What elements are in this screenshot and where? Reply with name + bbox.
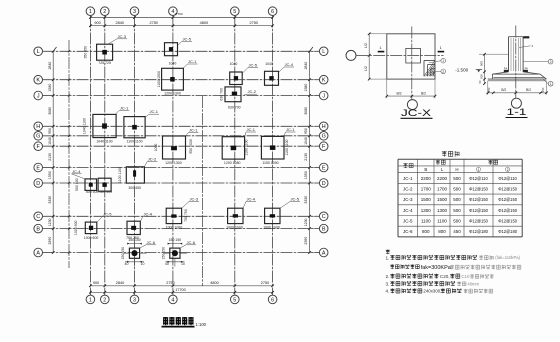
svg-text:B/2: B/2 (396, 91, 401, 95)
svg-text:17700: 17700 (175, 288, 185, 292)
svg-text:4800: 4800 (210, 281, 218, 285)
svg-text:2750: 2750 (261, 281, 269, 285)
svg-text:40: 40 (125, 262, 129, 266)
svg-text:2130: 2130 (304, 153, 308, 161)
svg-text:1100: 1100 (437, 219, 447, 224)
svg-text:2: 2 (442, 70, 444, 74)
svg-text:900: 900 (94, 21, 100, 25)
svg-text:JC-5: JC-5 (403, 219, 413, 224)
svg-text:J: J (322, 93, 325, 99)
svg-text:C: C (36, 214, 40, 220)
svg-text:17700: 17700 (174, 12, 183, 16)
svg-text:800: 800 (438, 229, 446, 234)
svg-text:2130: 2130 (48, 153, 52, 161)
svg-text:Φ12@150: Φ12@150 (469, 186, 489, 191)
svg-text:950: 950 (304, 128, 308, 134)
svg-text:JC-2: JC-2 (403, 186, 413, 191)
svg-text:1500: 1500 (421, 197, 432, 202)
svg-text:1: 1 (89, 297, 92, 303)
svg-text:L/2: L/2 (364, 66, 368, 71)
svg-text:JC-3: JC-3 (118, 34, 127, 39)
svg-text:1580: 1580 (48, 84, 52, 92)
svg-text:500: 500 (453, 219, 461, 224)
svg-text:B: B (424, 167, 427, 172)
svg-text:K: K (36, 78, 40, 84)
svg-text:Φ12@180: Φ12@180 (498, 229, 518, 234)
svg-text:1.: 1. (386, 255, 390, 260)
svg-text:450: 450 (453, 229, 461, 234)
svg-text:H: H (322, 124, 326, 130)
svg-text:3: 3 (133, 297, 136, 303)
svg-text:JC-4: JC-4 (72, 169, 81, 174)
svg-text:40mm: 40mm (467, 281, 479, 286)
svg-text:JC-6: JC-6 (147, 240, 156, 245)
svg-text:1580: 1580 (304, 84, 308, 92)
svg-text:JC-3: JC-3 (190, 197, 199, 202)
svg-text:950 1030: 950 1030 (189, 139, 193, 154)
svg-text:JC-2: JC-2 (148, 157, 157, 162)
svg-text:1300: 1300 (437, 208, 448, 213)
svg-text:JC-4: JC-4 (144, 211, 153, 216)
svg-text:JC-6: JC-6 (403, 229, 413, 234)
svg-text:4800: 4800 (200, 21, 208, 25)
svg-text:C: C (322, 214, 326, 220)
svg-text:5: 5 (233, 9, 236, 15)
svg-text:2: 2 (103, 9, 106, 15)
svg-text:E: E (322, 165, 326, 171)
svg-text:750 750: 750 750 (184, 209, 188, 222)
svg-text:150: 150 (541, 87, 545, 92)
svg-text:B: B (36, 227, 40, 233)
svg-text:1550: 1550 (48, 171, 52, 179)
svg-text:2750: 2750 (166, 281, 174, 285)
svg-text:1040: 1040 (230, 62, 238, 66)
svg-text:JC-3: JC-3 (403, 197, 413, 202)
svg-text:1: 1 (550, 82, 552, 86)
svg-text:2: 2 (103, 297, 106, 303)
svg-text:2840: 2840 (304, 62, 308, 70)
svg-text:1000 1000: 1000 1000 (263, 225, 280, 229)
svg-text:JC-1: JC-1 (189, 128, 198, 133)
svg-text:725 725: 725 725 (98, 61, 111, 65)
svg-text:JC-4: JC-4 (403, 208, 413, 213)
svg-text:JC-5: JC-5 (103, 211, 112, 216)
svg-text:1500: 1500 (437, 197, 448, 202)
svg-text:1:100: 1:100 (196, 322, 207, 327)
svg-text:1300: 1300 (421, 208, 432, 213)
svg-text:1100: 1100 (421, 219, 431, 224)
svg-text:1040: 1040 (169, 62, 177, 66)
svg-text:JC-X: JC-X (401, 108, 431, 118)
svg-text:E: E (36, 165, 40, 171)
svg-text:500: 500 (453, 186, 461, 191)
svg-text:240x300,: 240x300, (423, 289, 441, 294)
svg-text:1: 1 (89, 9, 92, 15)
svg-text:JC-1: JC-1 (150, 109, 159, 114)
svg-text:1700: 1700 (421, 186, 432, 191)
svg-text:G: G (36, 134, 40, 140)
svg-text:L: L (37, 49, 40, 55)
svg-text:JC-1: JC-1 (403, 176, 413, 181)
svg-text:1000 1000: 1000 1000 (226, 225, 243, 229)
svg-text:500: 500 (453, 176, 461, 181)
svg-text:150 150: 150 150 (169, 238, 182, 242)
svg-text:2840: 2840 (115, 21, 123, 25)
svg-text:B/2: B/2 (501, 88, 506, 92)
svg-text:Φ12@150: Φ12@150 (469, 219, 489, 224)
svg-text:G: G (322, 134, 326, 140)
svg-text:40: 40 (165, 262, 169, 266)
svg-text:Φ12@150: Φ12@150 (469, 197, 489, 202)
svg-text:4.: 4. (386, 289, 390, 294)
svg-text:JC-4: JC-4 (285, 62, 294, 67)
svg-text:300 450: 300 450 (128, 186, 141, 190)
svg-text:1000: 1000 (154, 144, 158, 152)
svg-text:500: 500 (453, 197, 461, 202)
svg-text:950: 950 (48, 128, 52, 134)
svg-text:JC-1: JC-1 (188, 59, 197, 64)
svg-text:1100 1100: 1100 1100 (285, 139, 289, 155)
svg-text:Φ12@150: Φ12@150 (469, 208, 489, 213)
svg-text:B: B (322, 227, 326, 233)
svg-text:J: J (37, 93, 40, 99)
svg-text:4: 4 (171, 297, 174, 303)
svg-text:1a: 1a (504, 66, 508, 70)
svg-text:JC-4: JC-4 (247, 197, 256, 202)
svg-text:JC-5: JC-5 (291, 197, 300, 202)
svg-text:900: 900 (93, 281, 99, 285)
svg-text:1100 1100: 1100 1100 (244, 139, 248, 155)
svg-text:2: 2 (550, 60, 552, 64)
svg-text:Φ12@150: Φ12@150 (498, 219, 518, 224)
svg-text:A: A (36, 250, 40, 256)
svg-text:1700: 1700 (437, 186, 448, 191)
svg-text:Φ12@150: Φ12@150 (498, 208, 518, 213)
svg-text:1: 1 (380, 46, 382, 50)
svg-text:3330: 3330 (48, 196, 52, 204)
svg-text:1200 1300: 1200 1300 (165, 161, 182, 165)
svg-text:1040: 1040 (304, 137, 308, 145)
svg-text:1550: 1550 (304, 171, 308, 179)
svg-text:2.: 2. (386, 274, 390, 279)
svg-text:1150 1090: 1150 1090 (262, 161, 278, 165)
svg-text:JC-5: JC-5 (249, 63, 258, 68)
svg-text:fak=300KPa: fak=300KPa (421, 265, 452, 271)
svg-text:1200 1300: 1200 1300 (164, 91, 181, 95)
svg-text:1040 1100: 1040 1100 (96, 140, 112, 144)
svg-text:1-1: 1-1 (507, 107, 527, 117)
svg-text:2750: 2750 (249, 21, 257, 25)
svg-text:500: 500 (479, 61, 483, 66)
svg-text:D: D (36, 181, 40, 187)
svg-text:3080: 3080 (48, 107, 52, 115)
svg-text:2200: 2200 (437, 176, 448, 181)
svg-text:Φ12@110: Φ12@110 (498, 176, 517, 181)
svg-text:1: 1 (442, 59, 444, 63)
svg-text:800: 800 (422, 229, 430, 234)
svg-text:500 500: 500 500 (75, 178, 79, 191)
svg-text:3330: 3330 (304, 196, 308, 204)
svg-text:JC-1: JC-1 (120, 105, 129, 110)
svg-text:3080: 3080 (304, 107, 308, 115)
svg-text:-1.500: -1.500 (455, 68, 468, 73)
svg-text:L/2: L/2 (364, 43, 368, 48)
svg-text:K: K (322, 78, 326, 84)
svg-text:630 700: 630 700 (219, 88, 223, 101)
svg-text:1000 600: 1000 600 (74, 220, 78, 235)
svg-text:1040: 1040 (265, 62, 273, 66)
svg-text:2750: 2750 (149, 21, 157, 25)
svg-text:150 150: 150 150 (128, 238, 141, 242)
svg-text:Φ12@180: Φ12@180 (469, 229, 489, 234)
svg-text:1100 1100: 1100 1100 (126, 140, 142, 144)
svg-text:10: 10 (181, 262, 185, 266)
svg-text:1000 600: 1000 600 (84, 236, 99, 240)
svg-text:C20,: C20, (440, 274, 450, 279)
svg-text:H: H (455, 167, 458, 172)
svg-text:1040 1100: 1040 1100 (83, 118, 87, 134)
svg-text:1230: 1230 (304, 218, 308, 226)
svg-text:150: 150 (487, 87, 491, 92)
svg-text:500 500 500 500: 500 500 500 500 (86, 190, 112, 194)
svg-text:A: A (322, 250, 326, 256)
svg-text:630 700: 630 700 (228, 106, 241, 110)
svg-text:JC-6: JC-6 (187, 240, 196, 245)
svg-text:1200 1080: 1200 1080 (224, 161, 241, 165)
svg-text:1100 1500: 1100 1500 (157, 71, 161, 87)
svg-text:6: 6 (271, 297, 274, 303)
svg-text:JC-2: JC-2 (248, 89, 257, 94)
svg-text:(fak=110kPa): (fak=110kPa) (495, 255, 520, 260)
svg-text:1040: 1040 (48, 137, 52, 145)
svg-text:5: 5 (233, 297, 236, 303)
svg-text:3.: 3. (386, 281, 390, 286)
svg-text:2390: 2390 (304, 237, 308, 245)
svg-text:JC-1: JC-1 (247, 127, 256, 132)
svg-text:JC-5: JC-5 (183, 36, 192, 41)
svg-text:2840: 2840 (116, 281, 124, 285)
svg-text:JC-1: JC-1 (286, 127, 295, 132)
svg-text:B/2: B/2 (526, 88, 531, 92)
svg-text:1000 1000: 1000 1000 (166, 225, 183, 229)
svg-text:H: H (36, 124, 40, 130)
svg-text:2200: 2200 (421, 176, 432, 181)
svg-text:Φ12@150: Φ12@150 (498, 197, 518, 202)
svg-text:500: 500 (453, 208, 461, 213)
svg-text:2840: 2840 (48, 62, 52, 70)
svg-text:500: 500 (479, 74, 483, 79)
svg-text:L: L (322, 49, 325, 55)
svg-text:3: 3 (133, 9, 136, 15)
svg-text:1100 1100: 1100 1100 (118, 167, 122, 183)
svg-text:1230: 1230 (48, 218, 52, 226)
svg-text:6: 6 (271, 9, 274, 15)
svg-text:2: 2 (507, 168, 509, 172)
svg-text:10: 10 (141, 262, 145, 266)
svg-text:Φ12@110: Φ12@110 (469, 176, 488, 181)
svg-text:1a: 1a (524, 66, 528, 70)
svg-text:C10: C10 (461, 274, 470, 279)
svg-text:1: 1 (440, 46, 442, 50)
svg-text:350 350: 350 350 (84, 46, 88, 59)
svg-text:2390: 2390 (48, 237, 52, 245)
svg-text:1: 1 (478, 168, 480, 172)
svg-text:Φ12@150: Φ12@150 (498, 186, 518, 191)
svg-text:B/2: B/2 (421, 91, 426, 95)
svg-text:D: D (322, 181, 326, 187)
